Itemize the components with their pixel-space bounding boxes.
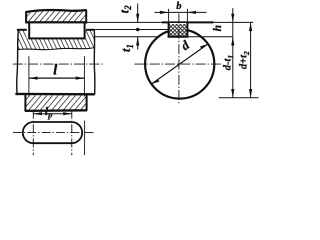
keyway slot white mask over circle top: [169, 23, 188, 37]
d+t2 dimension vertical line: [250, 22, 252, 97]
circle vertical centerline: [178, 14, 180, 105]
projection line of key right end: [84, 121, 86, 156]
hub left face upper: [25, 11, 27, 23]
shaft local-section hatched region (left view): [17, 30, 94, 50]
keyway slot left wall: [168, 22, 170, 36]
label d-t1: [223, 55, 235, 70]
L1 key top extension line across to right view: [87, 21, 253, 23]
shaft axis centerline (left view): [13, 63, 103, 65]
dimension l arrow right: [76, 77, 85, 80]
d arrow upper-right: [200, 44, 208, 49]
d arrow lower-left: [152, 79, 160, 84]
label h: [212, 25, 224, 31]
svg-text:t2: t2: [118, 5, 134, 13]
d+t2 bottom arrow (down): [249, 89, 252, 98]
h top arrow (down at L1): [231, 14, 234, 23]
shaft break line left (wavy): [17, 30, 19, 95]
dimension lp arrow left: [33, 112, 42, 115]
hub right face upper: [85, 10, 87, 24]
svg-text:d: d: [178, 37, 192, 53]
dimension l extension line right: [83, 56, 85, 96]
hub upper section hatch: [26, 10, 87, 22]
keyway slot right wall: [186, 22, 188, 36]
shaft bottom surface line: [15, 93, 94, 96]
wavy bottom edge of shaft local section: [17, 48, 94, 50]
d+t2 top arrow (up at L1): [249, 22, 252, 31]
shaft surface line right of hub: [86, 29, 94, 31]
t dimension vertical line: [137, 4, 139, 23]
keyway slot bottom (L3 thick): [168, 36, 189, 38]
dimension l extension line left: [28, 56, 30, 96]
plan view horizontal centerline: [13, 132, 96, 134]
t dot at L2: [136, 28, 140, 32]
shaft surface line left of hub: [17, 29, 27, 31]
dimension l line: [29, 77, 85, 79]
svg-text:h: h: [212, 25, 224, 31]
h bottom / d-t1 top arrow (up at L3): [231, 37, 234, 46]
L3 extension line (right part): [187, 36, 232, 38]
d-t1 bottom arrow (down): [231, 89, 234, 98]
plan view left semicircle centerline: [32, 110, 34, 155]
dimension lp arrow right: [63, 112, 72, 115]
key cross-section crosshatched: [169, 24, 188, 37]
key (white, unsectioned): [29, 22, 84, 38]
hub top outline (wavy thick): [25, 10, 86, 12]
label t1: [119, 44, 135, 52]
dimension b extension right: [186, 9, 188, 23]
key plan view (stadium): [23, 122, 82, 143]
label d+t2: [239, 51, 251, 69]
svg-text:t1: t1: [119, 44, 135, 52]
d diameter dimension line: [152, 44, 208, 84]
hub bottom outline: [25, 109, 87, 112]
plan view right semicircle centerline: [71, 110, 73, 155]
svg-text:b: b: [176, 1, 181, 12]
svg-text:l: l: [53, 63, 58, 79]
hub right face lower: [86, 94, 88, 111]
hub left face lower: [24, 93, 26, 111]
shaft cross-section circle: [145, 29, 214, 98]
svg-text:d+t2: d+t2: [239, 51, 251, 69]
dimension b line: [155, 11, 207, 13]
L3 groove bottom extension line (left part): [94, 36, 158, 38]
dimension lp line: [33, 113, 72, 115]
t1 arrow tail: [137, 37, 139, 50]
bottom extension line (circle bottom tangent): [219, 97, 259, 99]
svg-text:d-t1: d-t1: [223, 55, 235, 70]
shaft break line right (wavy): [93, 30, 96, 95]
h and d-t1 dimension vertical line: [232, 8, 234, 98]
t2 arrow (down at L1): [136, 14, 139, 23]
label d: [178, 37, 192, 53]
L2 shaft surface extension line: [94, 29, 168, 31]
L1 thick segment at keyway slot: [162, 21, 214, 23]
label t2: [118, 5, 134, 13]
dimension l arrow left: [29, 77, 38, 80]
circle horizontal centerline: [134, 63, 222, 65]
t1 arrow (up at L3): [136, 37, 139, 46]
dimension b arrow left (pointing right): [160, 11, 169, 14]
dimension b arrow right (pointing left): [187, 11, 196, 14]
dimension b extension left: [168, 9, 170, 23]
key top line (groove top) L1 thick: [26, 21, 87, 23]
hub lower section hatch: [25, 95, 86, 110]
